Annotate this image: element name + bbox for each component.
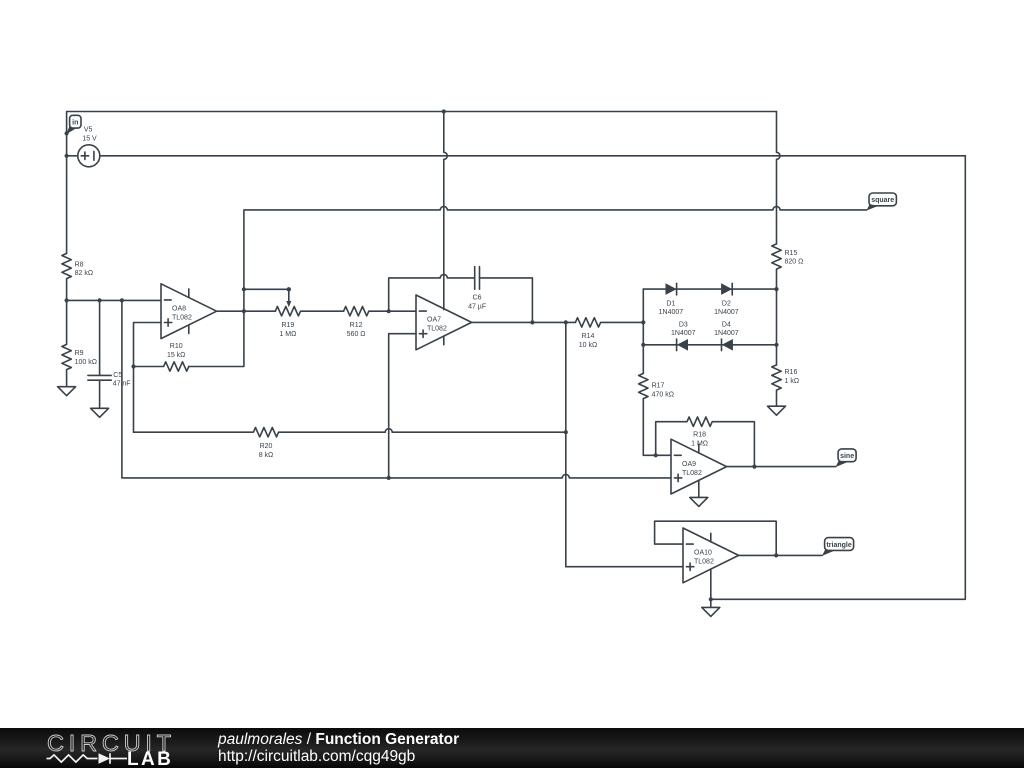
resistor R8 82 k: [62, 253, 93, 300]
svg-text:D1: D1: [666, 300, 675, 307]
wire OA10 V- pin down to ground junction: [710, 569, 712, 599]
wire OA8 + input left-down to R10 and R20 row: [134, 323, 162, 433]
svg-text:560 Ω: 560 Ω: [347, 331, 366, 338]
FOOTER bar: [0, 728, 1024, 768]
svg-text:TL082: TL082: [172, 314, 192, 321]
svg-text:R14: R14: [582, 333, 595, 340]
resistor R18 1 M feedback of OA9: [656, 417, 755, 467]
wire OA7 + input left and down to mid net: [389, 334, 416, 478]
ground under R16: [768, 406, 786, 415]
node sine flag: [836, 449, 857, 467]
svg-text:15 V: 15 V: [82, 136, 97, 143]
svg-text:R8: R8: [75, 261, 84, 268]
wire R19 wiper tie to OA8 output: [244, 287, 291, 307]
svg-text:R12: R12: [350, 322, 363, 329]
svg-text:D4: D4: [722, 322, 731, 329]
svg-text:D2: D2: [722, 300, 731, 307]
resistor R14 10 k: [575, 318, 643, 350]
resistor R9 100 k: [62, 300, 97, 386]
resistor R12 560: [344, 307, 416, 338]
svg-text:D3: D3: [679, 322, 688, 329]
wire OA8 output row to R19: [217, 310, 276, 312]
svg-text:paulmorales / Function Generat: paulmorales / Function Generator: [217, 731, 459, 748]
svg-text:1N4007: 1N4007: [671, 330, 696, 337]
ground under OA9: [690, 497, 708, 506]
capacitor C6 47 uF: [468, 267, 532, 323]
svg-text:R10: R10: [170, 343, 183, 350]
svg-text:15 kΩ: 15 kΩ: [167, 352, 185, 359]
svg-text:470 kΩ: 470 kΩ: [652, 391, 674, 398]
diode D3 1N4007: [671, 322, 696, 351]
op-amp OA8 TL082: [161, 284, 217, 339]
wire far-right vertical down to OA10 ground wire: [711, 156, 966, 600]
svg-text:R19: R19: [281, 322, 294, 329]
wire +15V rail down to R15 (hop over V5 wire): [777, 112, 781, 244]
svg-text:in: in: [72, 119, 78, 126]
wire mid-net branch down and across to OA9 + input (hop over x=565.8): [122, 300, 671, 478]
svg-text:TL082: TL082: [427, 326, 447, 333]
node mid divider wire to OA8 inverting input: [67, 299, 161, 301]
svg-text:TL082: TL082: [694, 559, 714, 566]
resistor R10 15 k feedback: [134, 343, 189, 371]
svg-text:47 µF: 47 µF: [468, 303, 486, 310]
svg-text:OA7: OA7: [427, 317, 441, 324]
resistor R17 470 k: [639, 373, 674, 398]
wire OA7 V+ pin up to +15V rail (hop over V5 wire): [444, 112, 448, 310]
junction dot V5 left: [65, 154, 69, 158]
svg-text:C6: C6: [473, 294, 482, 301]
svg-text:1N4007: 1N4007: [714, 330, 739, 337]
svg-text:R15: R15: [785, 250, 798, 257]
voltage source V5 15 V: [67, 127, 100, 167]
wire top +15V rail with left drop to V5: [67, 112, 777, 254]
svg-text:1N4007: 1N4007: [659, 309, 684, 316]
svg-text:triangle: triangle: [826, 542, 851, 549]
svg-text:LAB: LAB: [127, 749, 173, 768]
junction dot at in-flag attach: [65, 131, 69, 135]
wire between diode rows right side: [776, 289, 778, 365]
wire OA10 ground stem: [710, 599, 712, 607]
op-amp OA7 TL082: [416, 295, 472, 350]
wire OA10 output to triangle flag: [739, 554, 823, 556]
node triangle flag: [822, 538, 854, 556]
CircuitLab logo resistor-diode squiggle: [47, 755, 98, 762]
svg-text:C5: C5: [113, 372, 122, 379]
resistor R15 820: [772, 244, 804, 289]
svg-text:1 MΩ: 1 MΩ: [279, 331, 296, 338]
svg-text:1 kΩ: 1 kΩ: [785, 378, 800, 385]
svg-text:OA10: OA10: [694, 550, 712, 557]
ground under OA10: [702, 607, 720, 616]
svg-text:820 Ω: 820 Ω: [785, 259, 804, 266]
svg-text:sine: sine: [840, 453, 854, 460]
svg-text:OA9: OA9: [682, 461, 696, 468]
wire OA8 output up then right to square net (hops at 443.8 and 776.5): [244, 206, 867, 311]
op-amp OA10 TL082: [683, 528, 739, 583]
wire OA7 output row to diode block left corner: [472, 321, 576, 323]
svg-text:R16: R16: [785, 369, 798, 376]
capacitor C5 47 nF: [88, 300, 131, 408]
potentiometer R19 1 M: [275, 307, 343, 338]
ground under C5: [91, 408, 109, 417]
wire OA10 feedback loop: [655, 521, 777, 555]
svg-text:R17: R17: [652, 382, 665, 389]
wire OA7 output down to R20 junction and OA10 + input (straight, crossed with hop): [566, 322, 683, 566]
wire diode block left vertical to R17: [642, 289, 644, 373]
svg-text:10 kΩ: 10 kΩ: [579, 342, 597, 349]
resistor R16 1 k: [772, 365, 799, 406]
wire diode block top row: [643, 288, 776, 290]
node square flag: [866, 193, 896, 211]
svg-text:OA8: OA8: [172, 305, 186, 312]
diode D1 1N4007: [659, 283, 684, 316]
svg-text:http://circuitlab.com/cqg49gb: http://circuitlab.com/cqg49gb: [218, 748, 415, 765]
svg-text:TL082: TL082: [682, 470, 702, 477]
wire OA7 feedback top with hop at 443.8: [389, 274, 475, 311]
wire OA9 V- pin to ground: [698, 489, 700, 498]
svg-text:R20: R20: [260, 443, 273, 450]
diode D4 1N4007: [714, 322, 739, 351]
resistor R20 8 k from OA8 + to OA7 out (hop over x=388.7): [134, 428, 566, 459]
svg-text:1N4007: 1N4007: [714, 309, 739, 316]
wire diode block bottom row: [643, 344, 776, 346]
op-amp OA9 TL082: [671, 439, 727, 494]
svg-text:8 kΩ: 8 kΩ: [259, 452, 274, 459]
svg-text:V5: V5: [84, 127, 93, 134]
svg-text:100 kΩ: 100 kΩ: [75, 359, 97, 366]
wire V5 right to far-right edge: [100, 155, 966, 157]
diode D2 1N4007: [714, 283, 739, 316]
svg-text:82 kΩ: 82 kΩ: [75, 270, 93, 277]
svg-text:R9: R9: [75, 350, 84, 357]
svg-text:square: square: [871, 197, 894, 204]
wire OA9 output to sine flag: [727, 466, 836, 468]
wire R10 right up to OA8 output: [189, 311, 244, 366]
wire R17 down to OA9 - input: [643, 399, 671, 456]
svg-text:R18: R18: [693, 432, 706, 439]
ground under R9: [58, 387, 76, 396]
node in flag: [66, 115, 81, 134]
